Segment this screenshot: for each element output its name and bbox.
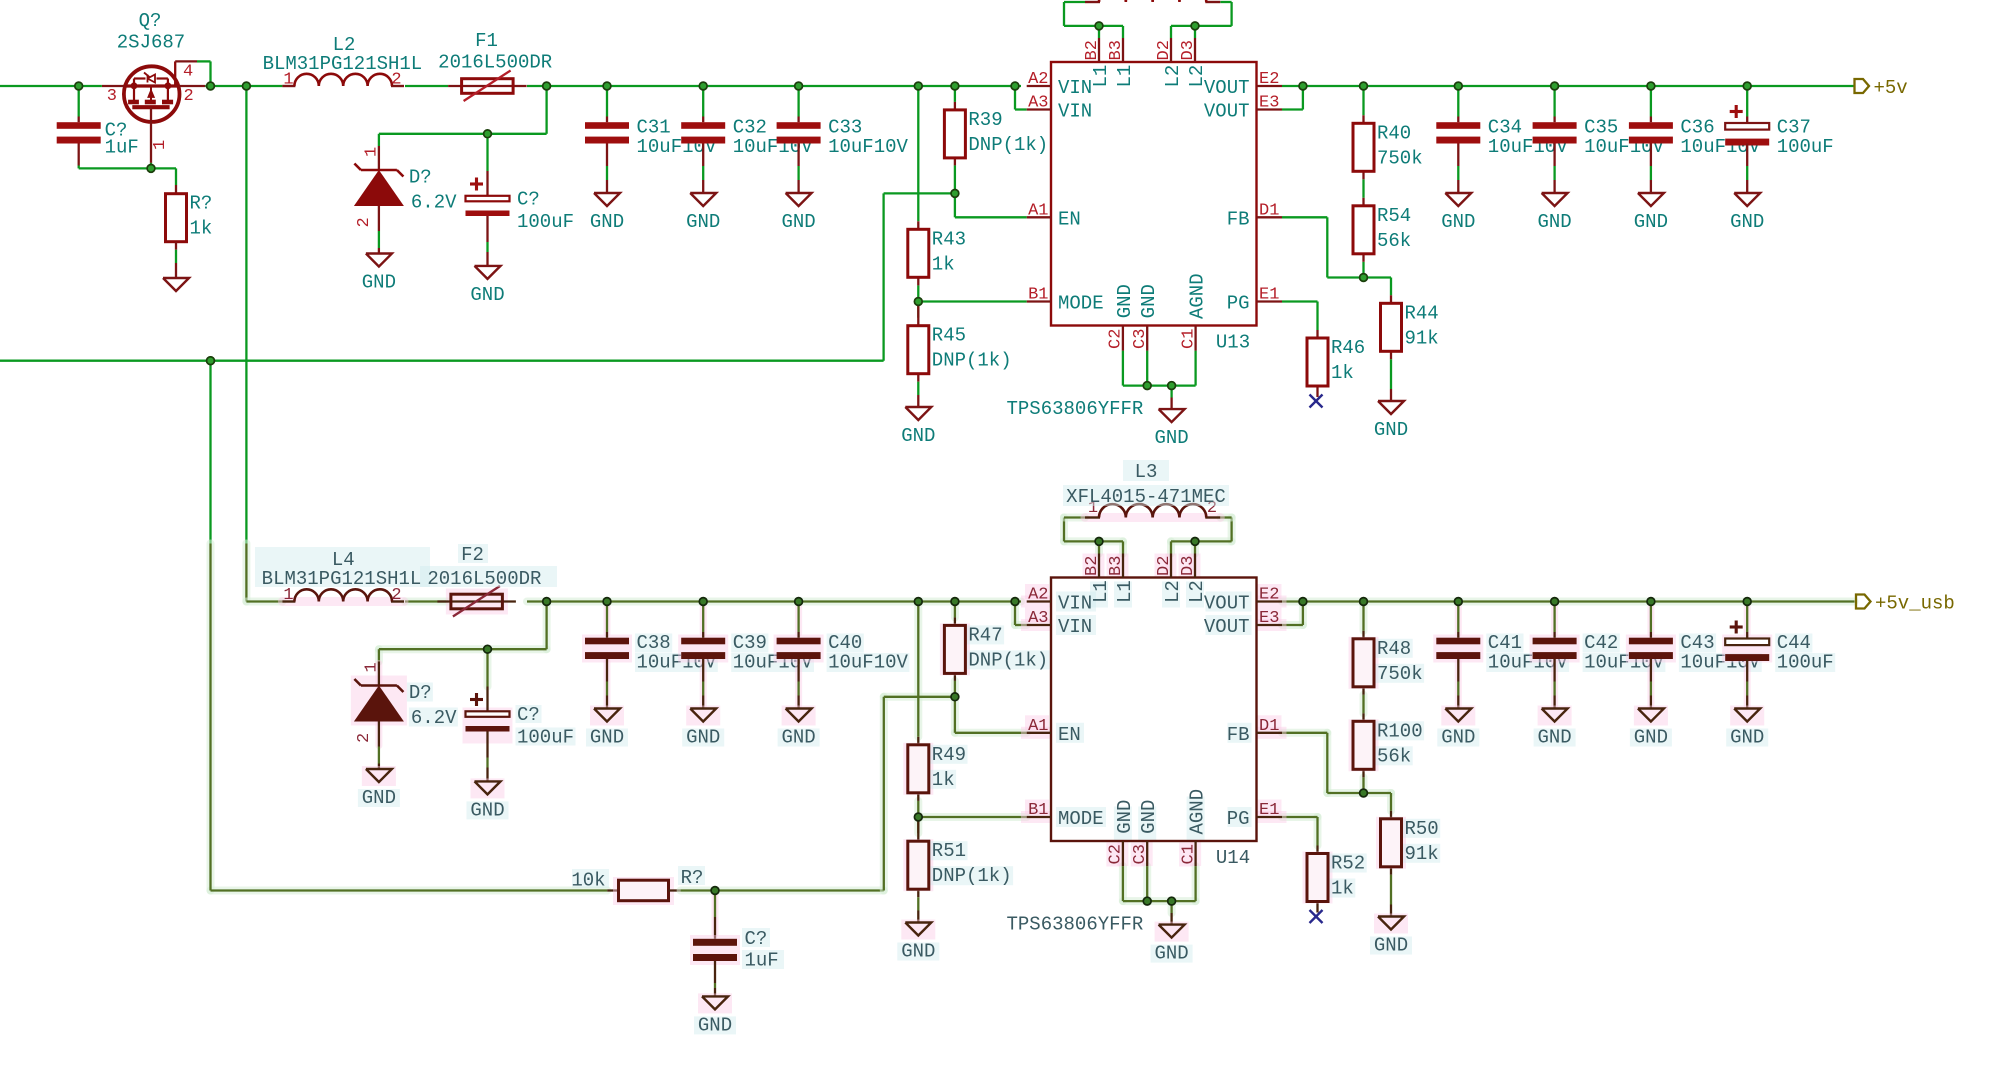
svg-text:FB: FB [1227, 208, 1250, 230]
svg-text:A2: A2 [1028, 586, 1048, 605]
svg-text:GND: GND [901, 941, 935, 963]
svg-text:GND: GND [1154, 943, 1188, 965]
svg-text:MODE: MODE [1058, 293, 1104, 315]
svg-text:R40: R40 [1377, 122, 1411, 144]
svg-text:GND: GND [1634, 211, 1668, 233]
svg-text:A1: A1 [1028, 201, 1048, 220]
svg-text:FB: FB [1227, 724, 1250, 746]
svg-text:AGND: AGND [1187, 789, 1209, 835]
svg-text:C3: C3 [1131, 329, 1150, 349]
svg-text:E2: E2 [1259, 70, 1279, 89]
svg-text:100uF: 100uF [1777, 136, 1834, 158]
svg-text:D1: D1 [1259, 201, 1279, 220]
svg-text:C1: C1 [1179, 329, 1198, 349]
svg-text:GND: GND [1114, 800, 1136, 834]
svg-text:GND: GND [1114, 284, 1136, 318]
svg-text:GND: GND [698, 1014, 732, 1036]
svg-text:GND: GND [1441, 727, 1475, 749]
svg-text:GND: GND [1537, 727, 1571, 749]
svg-text:GND: GND [470, 799, 504, 821]
svg-text:L3: L3 [1135, 461, 1158, 483]
svg-text:VOUT: VOUT [1204, 616, 1250, 638]
svg-text:DNP(1k): DNP(1k) [932, 865, 1012, 887]
svg-text:56k: 56k [1377, 230, 1411, 252]
svg-text:4: 4 [183, 63, 193, 82]
svg-text:3: 3 [107, 87, 117, 106]
svg-text:100uF: 100uF [517, 211, 574, 233]
svg-text:GND: GND [1730, 211, 1764, 233]
svg-text:L2: L2 [1186, 580, 1208, 603]
svg-text:L2: L2 [1186, 65, 1208, 88]
svg-text:GND: GND [901, 425, 935, 447]
svg-text:A3: A3 [1028, 94, 1048, 113]
svg-text:PG: PG [1227, 808, 1250, 830]
svg-text:A2: A2 [1028, 70, 1048, 89]
svg-text:C3: C3 [1131, 844, 1150, 864]
svg-text:GND: GND [1374, 935, 1408, 957]
svg-text:A1: A1 [1028, 717, 1048, 736]
svg-text:L1: L1 [1114, 580, 1136, 603]
svg-text:VIN: VIN [1058, 77, 1092, 99]
svg-text:R39: R39 [968, 109, 1002, 131]
svg-text:E1: E1 [1259, 286, 1279, 305]
svg-text:E1: E1 [1259, 801, 1279, 820]
svg-text:B1: B1 [1028, 286, 1048, 305]
svg-text:D?: D? [409, 682, 432, 704]
svg-text:100uF: 100uF [517, 727, 574, 749]
svg-text:GND: GND [1374, 419, 1408, 441]
svg-text:B1: B1 [1028, 801, 1048, 820]
svg-text:1: 1 [151, 140, 170, 150]
svg-text:TPS63806YFFR: TPS63806YFFR [1007, 398, 1144, 420]
svg-text:B3: B3 [1107, 556, 1126, 576]
svg-text:1k: 1k [932, 253, 955, 275]
svg-text:VOUT: VOUT [1204, 77, 1250, 99]
svg-text:R46: R46 [1331, 337, 1365, 359]
svg-text:U14: U14 [1216, 847, 1250, 869]
svg-text:A3: A3 [1028, 609, 1048, 628]
svg-text:+5v_usb: +5v_usb [1875, 593, 1955, 615]
svg-text:C?: C? [517, 704, 540, 726]
svg-text:GND: GND [1634, 727, 1668, 749]
svg-text:2: 2 [355, 733, 374, 743]
svg-text:GND: GND [362, 272, 396, 294]
svg-text:PG: PG [1227, 293, 1250, 315]
svg-text:C?: C? [745, 928, 768, 950]
svg-text:GND: GND [1138, 284, 1160, 318]
svg-text:L1: L1 [1114, 65, 1136, 88]
svg-text:R49: R49 [932, 744, 966, 766]
svg-text:EN: EN [1058, 208, 1081, 230]
svg-text:B2: B2 [1083, 40, 1102, 60]
svg-text:C?: C? [517, 189, 540, 211]
svg-text:AGND: AGND [1187, 273, 1209, 319]
svg-text:L2: L2 [1162, 580, 1184, 603]
svg-text:GND: GND [470, 284, 504, 306]
svg-text:91k: 91k [1405, 327, 1439, 349]
svg-text:1: 1 [362, 662, 381, 672]
svg-text:10uF10V: 10uF10V [828, 652, 908, 674]
svg-text:1: 1 [362, 147, 381, 157]
svg-text:2: 2 [355, 217, 374, 227]
svg-text:R47: R47 [968, 624, 1002, 646]
svg-text:10uF10V: 10uF10V [828, 136, 908, 158]
svg-text:D3: D3 [1179, 556, 1198, 576]
svg-text:L1: L1 [1090, 65, 1112, 88]
svg-text:GND: GND [1441, 211, 1475, 233]
svg-text:EN: EN [1058, 724, 1081, 746]
svg-text:GND: GND [781, 727, 815, 749]
svg-text:VIN: VIN [1058, 616, 1092, 638]
svg-text:750k: 750k [1377, 663, 1423, 685]
svg-text:GND: GND [590, 211, 624, 233]
svg-text:TPS63806YFFR: TPS63806YFFR [1007, 914, 1144, 936]
svg-text:R100: R100 [1377, 720, 1423, 742]
svg-text:GND: GND [781, 211, 815, 233]
svg-text:1k: 1k [190, 218, 213, 240]
svg-text:BLM31PG121SH1L: BLM31PG121SH1L [263, 53, 423, 75]
svg-text:GND: GND [1154, 427, 1188, 449]
svg-text:2: 2 [184, 87, 194, 106]
svg-text:GND: GND [686, 727, 720, 749]
svg-text:R44: R44 [1405, 302, 1439, 324]
svg-text:750k: 750k [1377, 147, 1423, 169]
svg-text:VIN: VIN [1058, 593, 1092, 615]
svg-text:D2: D2 [1155, 40, 1174, 60]
svg-text:L1: L1 [1090, 580, 1112, 603]
svg-text:D1: D1 [1259, 717, 1279, 736]
svg-text:B3: B3 [1107, 40, 1126, 60]
svg-text:R45: R45 [932, 325, 966, 347]
svg-text:B2: B2 [1083, 556, 1102, 576]
svg-text:GND: GND [1730, 727, 1764, 749]
svg-text:DNP(1k): DNP(1k) [968, 649, 1048, 671]
svg-text:C1: C1 [1179, 844, 1198, 864]
svg-text:C2: C2 [1107, 844, 1126, 864]
svg-text:1k: 1k [932, 769, 955, 791]
svg-text:R54: R54 [1377, 205, 1411, 227]
svg-text:F2: F2 [461, 544, 484, 566]
svg-text:R50: R50 [1405, 818, 1439, 840]
svg-text:6.2V: 6.2V [411, 707, 457, 729]
svg-text:1k: 1k [1331, 878, 1354, 900]
svg-text:6.2V: 6.2V [411, 192, 457, 214]
svg-text:56k: 56k [1377, 745, 1411, 767]
svg-text:2016L500DR: 2016L500DR [438, 52, 552, 74]
svg-text:1uF: 1uF [745, 950, 779, 972]
svg-text:VIN: VIN [1058, 101, 1092, 123]
svg-text:D2: D2 [1155, 556, 1174, 576]
svg-text:L2: L2 [1162, 65, 1184, 88]
svg-text:DNP(1k): DNP(1k) [968, 134, 1048, 156]
svg-text:MODE: MODE [1058, 808, 1104, 830]
svg-text:+5v: +5v [1874, 77, 1908, 99]
svg-text:E3: E3 [1259, 94, 1279, 113]
svg-text:BLM31PG121SH1L: BLM31PG121SH1L [262, 568, 422, 590]
svg-text:2SJ687: 2SJ687 [117, 32, 185, 54]
svg-text:E2: E2 [1259, 586, 1279, 605]
svg-text:D3: D3 [1179, 40, 1198, 60]
svg-text:R48: R48 [1377, 638, 1411, 660]
svg-text:C2: C2 [1107, 329, 1126, 349]
svg-text:U13: U13 [1216, 332, 1250, 354]
svg-text:GND: GND [1138, 800, 1160, 834]
svg-text:VOUT: VOUT [1204, 593, 1250, 615]
svg-text:GND: GND [686, 211, 720, 233]
svg-text:2016L500DR: 2016L500DR [427, 568, 541, 590]
svg-text:GND: GND [590, 727, 624, 749]
svg-text:VOUT: VOUT [1204, 101, 1250, 123]
svg-text:R?: R? [681, 867, 704, 889]
svg-text:1k: 1k [1331, 362, 1354, 384]
svg-text:GND: GND [362, 787, 396, 809]
svg-text:D?: D? [409, 167, 432, 189]
svg-text:DNP(1k): DNP(1k) [932, 350, 1012, 372]
svg-text:R51: R51 [932, 840, 966, 862]
svg-text:91k: 91k [1405, 843, 1439, 865]
svg-text:R?: R? [190, 193, 213, 215]
svg-text:E3: E3 [1259, 609, 1279, 628]
svg-text:Q?: Q? [139, 10, 162, 32]
svg-text:1uF: 1uF [105, 136, 139, 158]
svg-text:F1: F1 [475, 30, 498, 52]
svg-text:10k: 10k [571, 870, 605, 892]
svg-text:100uF: 100uF [1777, 652, 1834, 674]
svg-text:XFL4015-471MEC: XFL4015-471MEC [1066, 486, 1226, 508]
svg-text:GND: GND [1537, 211, 1571, 233]
svg-text:R43: R43 [932, 228, 966, 250]
svg-text:R52: R52 [1331, 853, 1365, 875]
